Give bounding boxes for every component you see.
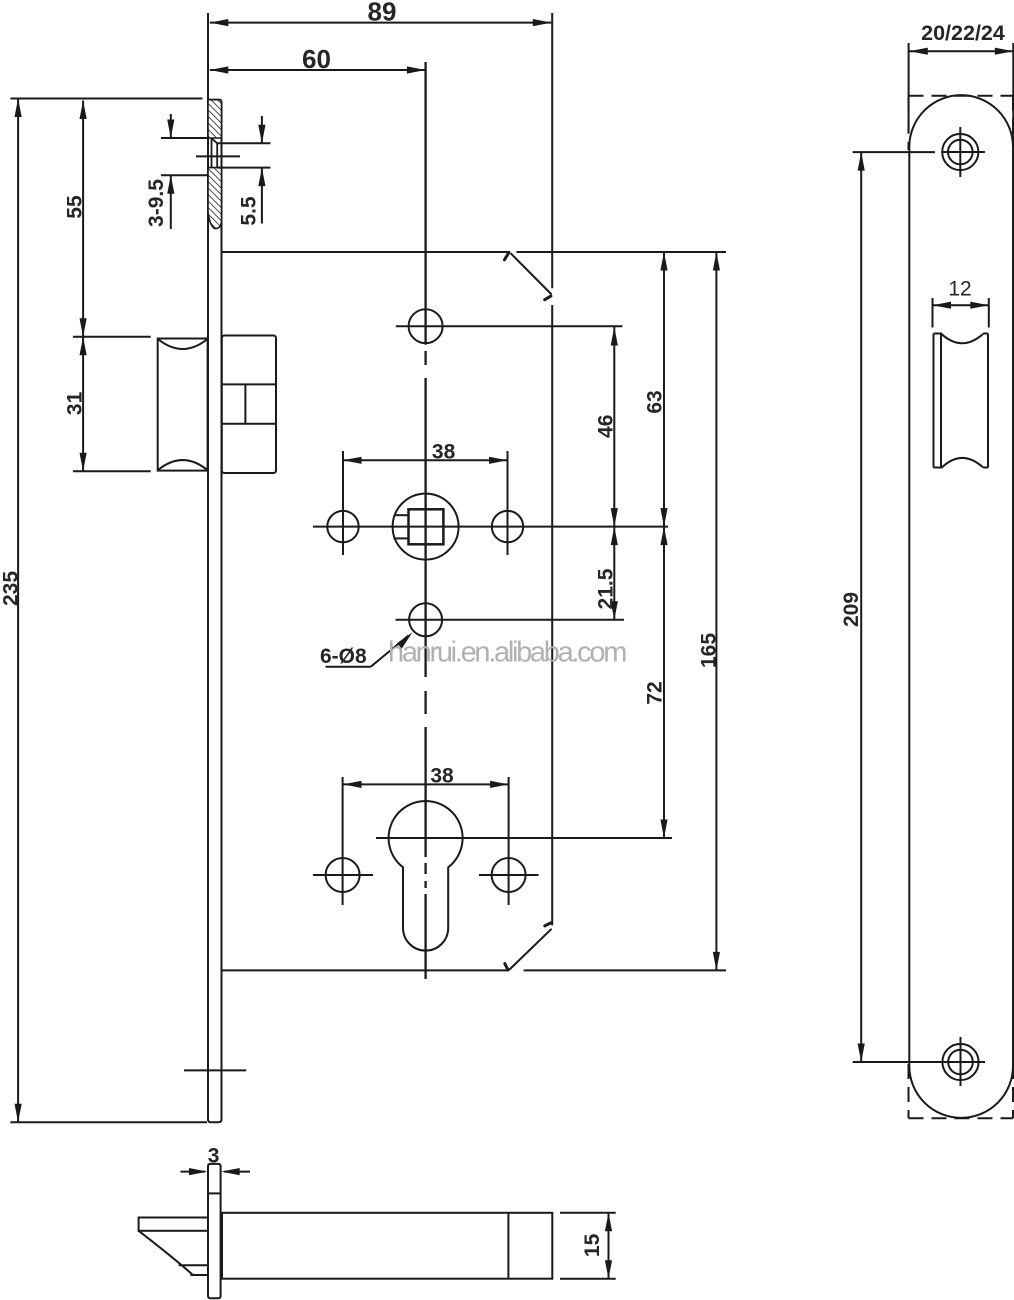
- small fixing hole (6-Ø8): [409, 603, 442, 636]
- leader 6-Ø8: [326, 632, 413, 667]
- dimension 46: [611, 327, 618, 527]
- upper mounting holes (38 apart): [327, 451, 523, 555]
- lock case bottom edge: [222, 969, 509, 971]
- svg-text:15: 15: [581, 1233, 604, 1257]
- latch bolt tail inside case: [222, 336, 276, 474]
- svg-text:55: 55: [63, 195, 86, 219]
- svg-text:72: 72: [644, 681, 667, 704]
- dimension 235 (overall faceplate length): [10, 99, 207, 1123]
- dimension 165 (case height): [713, 252, 720, 970]
- vertical centre axis of lock case: [424, 62, 426, 979]
- dimension 63: [660, 252, 667, 527]
- corner break (top right): [504, 253, 551, 300]
- svg-text:12: 12: [948, 277, 971, 300]
- right view: latch cutout: [934, 334, 989, 468]
- follower hole horizontal centreline / 46 extension: [396, 325, 623, 327]
- dimension 55 (top to latch): [80, 101, 87, 337]
- svg-text:209: 209: [840, 592, 863, 627]
- countersunk screw hole in section: [212, 138, 218, 168]
- lower mounting holes (38 apart): [313, 777, 539, 905]
- dimension 38 lower: [343, 781, 509, 788]
- 89/60 left extension above faceplate: [207, 13, 209, 100]
- dimension 89 (top width): [210, 19, 552, 26]
- dimension 209 (screw hole spacing): [853, 152, 935, 1062]
- svg-text:20/22/24: 20/22/24: [921, 21, 1005, 45]
- svg-text:5.5: 5.5: [238, 196, 261, 226]
- side view: latch bolt bevelled head: [139, 1218, 208, 1276]
- dimension 3-9.5 (screw hole offset): [161, 114, 208, 229]
- corner break (bottom right): [505, 923, 552, 970]
- svg-text:46: 46: [594, 415, 617, 438]
- dimension 21.5: [611, 527, 618, 620]
- svg-text:89: 89: [368, 0, 397, 27]
- svg-text:3-9.5: 3-9.5: [145, 179, 168, 227]
- faceplate front view (long vertical strip): [208, 100, 222, 1122]
- faceplate bottom screw hole centre tick: [184, 1069, 246, 1071]
- dimension 3 (faceplate thickness, side view): [181, 1168, 251, 1175]
- dimension 20/22/24 (faceplate width options): [909, 43, 1014, 147]
- spindle horizontal centreline / 46,21.5,63,72 extension: [313, 526, 668, 528]
- svg-text:63: 63: [644, 390, 667, 413]
- handle follower hole: [409, 309, 443, 343]
- dimension 60 (backset): [210, 66, 426, 73]
- lock case top edge: [222, 251, 511, 253]
- svg-text:60: 60: [302, 44, 331, 74]
- svg-text:6-Ø8: 6-Ø8: [320, 645, 367, 668]
- right view: top screw hole: [942, 127, 985, 177]
- spindle square hole: [393, 494, 459, 560]
- faceplate sectioned (hatched) upper block: [208, 100, 222, 138]
- svg-text:3: 3: [208, 1145, 220, 1168]
- screw hole centre tick: [196, 155, 240, 157]
- latch bolt front view (head left of faceplate): [158, 339, 208, 471]
- faceplate sectioned (hatched) lower block with break curve: [208, 168, 222, 229]
- dimension 31 (latch height): [73, 337, 151, 471]
- lock case right edge / 89 extension: [551, 13, 553, 288]
- side view: faceplate edge strip: [208, 1164, 221, 1298]
- svg-text:165: 165: [698, 633, 721, 668]
- dimension 5.5 (hole height): [217, 116, 270, 224]
- right view: dashed widest-option outline: [909, 96, 1014, 1119]
- dimension 12 (latch cutout width): [933, 298, 989, 328]
- svg-text:hanrui.en.alibaba.com: hanrui.en.alibaba.com: [388, 636, 626, 668]
- svg-text:235: 235: [0, 571, 22, 606]
- dimension 38 upper: [343, 457, 508, 464]
- svg-text:38: 38: [430, 765, 454, 788]
- right view: bottom screw hole: [935, 1037, 985, 1086]
- svg-text:38: 38: [432, 441, 456, 464]
- svg-text:21.5: 21.5: [594, 568, 617, 609]
- dimension 72: [660, 527, 667, 838]
- svg-text:31: 31: [63, 391, 86, 415]
- dimension 15 (latch bolt height, side view): [560, 1213, 616, 1279]
- cylinder horizontal centreline / 72 extension: [376, 837, 672, 839]
- right view: faceplate (stadium outline): [909, 95, 1013, 1118]
- side view: latch bolt body: [222, 1213, 552, 1279]
- euro cylinder hole: [389, 801, 463, 951]
